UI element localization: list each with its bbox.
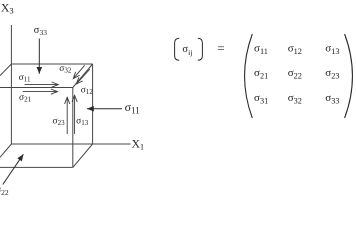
- wire cube top-left diagonal edge: [0, 64, 11, 76]
- svg-text:X3: X3: [1, 2, 14, 15]
- svg-text:σ22: σ22: [0, 185, 9, 197]
- svg-text:σij: σij: [182, 44, 192, 57]
- wire cube bottom-left diagonal edge: [0, 144, 11, 157]
- arrow sigma32: [73, 65, 84, 78]
- arrow sigma22: [3, 154, 24, 184]
- svg-text:X1: X1: [132, 138, 145, 151]
- svg-text:σ21: σ21: [19, 93, 32, 104]
- svg-text:σ32: σ32: [59, 64, 72, 75]
- arrow sigma33: [38, 39, 40, 74]
- svg-text:σ33: σ33: [325, 92, 339, 106]
- svg-text:σ32: σ32: [288, 92, 302, 106]
- svg-text:σ23: σ23: [53, 117, 66, 128]
- svg-text:σ31: σ31: [254, 92, 268, 106]
- wire cube front-right edge: [72, 88, 74, 168]
- right parenthesis of matrix: [345, 34, 353, 118]
- svg-text:σ11: σ11: [254, 42, 268, 56]
- arrow sigma11 top: [25, 84, 59, 86]
- wire cube bottom-right diagonal edge: [73, 144, 93, 167]
- right square bracket of [sigma_ij]: [198, 38, 203, 60]
- svg-text:σ11: σ11: [19, 73, 31, 84]
- wire cube top-right diagonal edge: [73, 64, 93, 88]
- wire cube back-top edge: [11, 63, 92, 65]
- svg-text:σ33: σ33: [34, 25, 47, 37]
- svg-text:σ22: σ22: [288, 67, 302, 81]
- left parenthesis of matrix: [245, 34, 253, 118]
- axis X1 line: [93, 143, 131, 145]
- svg-text:σ23: σ23: [325, 67, 339, 81]
- svg-text:σ11: σ11: [125, 100, 140, 116]
- svg-text:σ12: σ12: [81, 85, 94, 96]
- arrow sigma23: [66, 97, 68, 134]
- axis X3 line merged with cube back-left edge: [10, 25, 12, 144]
- svg-text:σ21: σ21: [254, 67, 268, 81]
- svg-text:σ12: σ12: [288, 42, 302, 56]
- wire cube front-top edge: [0, 87, 73, 89]
- wire cube back-bottom edge: [11, 143, 92, 145]
- svg-text:=: =: [217, 40, 224, 55]
- wire cube front-bottom edge: [0, 166, 73, 168]
- arrow sigma11 external: [87, 108, 122, 110]
- svg-text:σ13: σ13: [325, 42, 339, 56]
- svg-text:σ13: σ13: [76, 117, 89, 128]
- arrow sigma12: [76, 69, 90, 84]
- arrow sigma21: [23, 91, 58, 93]
- arrow sigma13: [74, 95, 76, 134]
- left square bracket of [sigma_ij]: [175, 38, 180, 60]
- wire cube back-right edge: [92, 64, 94, 144]
